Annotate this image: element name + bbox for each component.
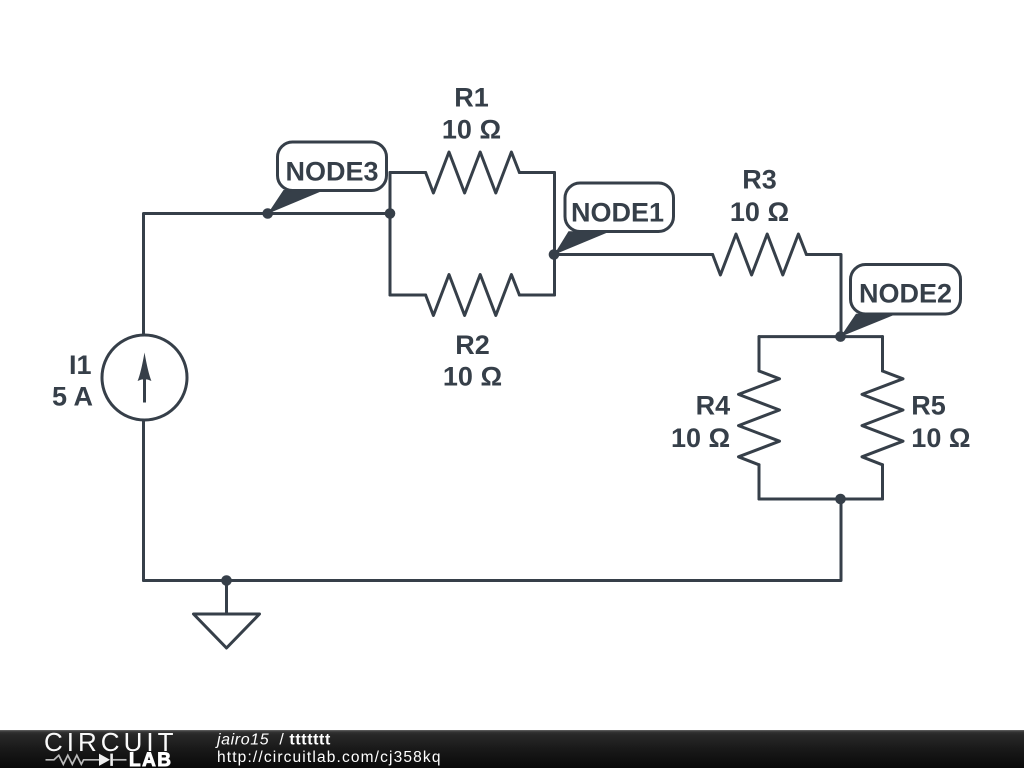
label R5 value <box>911 391 970 453</box>
resistor R1 <box>426 152 520 193</box>
wire ground stub <box>225 581 228 615</box>
wire R1R2 right vertical <box>553 173 556 296</box>
wire R4 bottom lead <box>758 465 761 499</box>
svg-text:10 Ω: 10 Ω <box>443 361 502 391</box>
svg-text:I1: I1 <box>69 350 92 380</box>
svg-text:10 Ω: 10 Ω <box>442 115 501 145</box>
wire R4 top lead <box>758 337 761 371</box>
node NODE3 callout <box>268 142 387 214</box>
wire current source bottom to bottom rail <box>142 420 145 581</box>
node NODE1 callout <box>554 183 674 255</box>
junction dot NODE2 <box>835 331 846 342</box>
footer bar <box>0 730 1024 768</box>
junction dot NODE1 <box>549 249 560 260</box>
ground <box>194 614 260 648</box>
junction dot R4R5 bottom <box>835 494 846 505</box>
logo diode <box>99 754 113 766</box>
junction dot NODE3 <box>262 208 273 219</box>
svg-text:10 Ω: 10 Ω <box>730 197 789 227</box>
label R3 value <box>730 165 789 227</box>
svg-text:R5: R5 <box>911 391 946 421</box>
wire R1R2 left vertical <box>389 173 392 296</box>
svg-text:R4: R4 <box>696 391 731 421</box>
wire R2 bottom branch leads <box>390 294 555 297</box>
label R4 value <box>671 391 730 453</box>
wire top-left L from current source to R1R2 <box>144 214 391 336</box>
wire R3 to NODE2 <box>806 255 841 337</box>
label R1 value <box>442 83 501 145</box>
svg-text:R3: R3 <box>742 165 777 195</box>
svg-text:10 Ω: 10 Ω <box>911 423 970 453</box>
node NODE2 callout <box>841 265 961 337</box>
resistor R5 <box>862 371 903 465</box>
svg-text:R1: R1 <box>454 83 489 113</box>
resistor R4 <box>739 371 780 465</box>
logo wire with resistor and diode <box>46 755 127 764</box>
svg-text:NODE2: NODE2 <box>859 278 952 308</box>
resistor R2 <box>426 275 520 316</box>
wire R1 top branch leads <box>390 171 555 174</box>
svg-text:NODE3: NODE3 <box>285 157 378 187</box>
svg-text:jairo15 / ttttttt: jairo15 / ttttttt <box>215 732 331 749</box>
junction dot ground <box>221 575 232 586</box>
svg-text:http://circuitlab.com/cj358kq: http://circuitlab.com/cj358kq <box>217 749 442 766</box>
label R2 value <box>443 330 502 392</box>
svg-text:LAB: LAB <box>129 750 171 768</box>
svg-text:5 A: 5 A <box>52 382 93 412</box>
wire R5 bottom lead <box>881 465 884 499</box>
wire R4R5 top rail <box>759 335 883 338</box>
junction dot R1R2 left <box>385 208 396 219</box>
svg-text:10 Ω: 10 Ω <box>671 423 730 453</box>
svg-text:NODE1: NODE1 <box>571 198 664 228</box>
resistor R3 <box>713 234 807 275</box>
svg-text:R2: R2 <box>455 330 490 360</box>
current source I1 <box>102 335 187 420</box>
wire NODE1 to R3 <box>555 253 713 256</box>
wire R4R5 bottom rail <box>759 498 883 501</box>
wire R5 top lead <box>881 337 884 371</box>
label I1 5 A <box>52 350 93 412</box>
wire bottom rail <box>144 499 842 581</box>
